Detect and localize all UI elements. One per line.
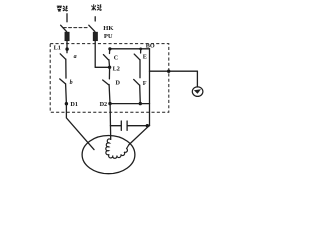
wire: switch D to node D2 <box>108 85 111 104</box>
junction dot at enclosure border (lamp feed) <box>167 70 170 73</box>
wire: live line down to node L2 level <box>94 41 96 68</box>
wire: capacitor right lead <box>128 125 150 127</box>
wire: between switch a and switch b <box>65 59 67 78</box>
wire: node D2 down to motor centre lead <box>109 104 112 140</box>
junction dot at C corner <box>108 47 111 50</box>
label 火线 (live wire text, drawn strokes) <box>91 4 101 10</box>
junction dot F-bottom <box>139 102 142 105</box>
label 零线 (neutral wire text, drawn strokes) <box>57 6 68 11</box>
wire: switch F down to bottom bus <box>139 85 142 103</box>
svg-text:D2: D2 <box>100 101 108 108</box>
wire: lamp feed horizontal <box>150 70 198 72</box>
switch a blade <box>60 54 65 59</box>
wire: horizontal into node L2 <box>95 66 109 68</box>
svg-text:BO: BO <box>146 42 155 49</box>
timer enclosure (dashed box) <box>50 44 169 113</box>
wire: switch b to node D1 <box>65 84 68 104</box>
svg-text:b: b <box>70 80 73 86</box>
motor main winding (vertical coil) <box>106 139 111 155</box>
svg-text:D: D <box>116 80 121 87</box>
wire: node L2 to switch D contact <box>108 67 110 79</box>
svg-text:D1: D1 <box>70 101 78 108</box>
wire: neutral from fuse to node L1 and into switch a <box>66 41 68 53</box>
wire: capacitor left lead <box>110 125 121 127</box>
fuse PU1 (neutral) <box>65 32 69 40</box>
switch D blade <box>103 80 109 85</box>
svg-text:L2: L2 <box>113 65 120 72</box>
switch C blade <box>103 55 108 60</box>
wire: diagonal from capacitor junction into motor <box>129 126 149 144</box>
node L2 <box>108 66 111 69</box>
node D1 <box>65 102 68 105</box>
capacitor C plates <box>121 121 127 130</box>
wire: live feed top segment <box>94 17 96 21</box>
switch E blade <box>134 54 140 60</box>
switch F blade <box>134 79 140 85</box>
wire: bottom bus D2 to right bus <box>110 103 150 105</box>
node L1 <box>65 47 68 50</box>
indicator lamp <box>192 87 203 97</box>
node D2 <box>108 102 111 105</box>
switch C upper contact wire <box>109 49 111 54</box>
mechanical link of switch HK (dashed) <box>63 27 88 29</box>
switch E upper contact wire <box>140 49 142 53</box>
fuse PU2 (live) <box>93 32 97 40</box>
svg-text:HK: HK <box>103 25 114 32</box>
switch b blade <box>60 79 66 84</box>
wire: timer top bus (node C corner to right bus) <box>110 48 150 50</box>
svg-text:E: E <box>143 54 147 61</box>
wire: node D1 down and diagonal into motor <box>66 104 94 150</box>
svg-text:L1: L1 <box>54 45 61 52</box>
wire: switch C to node L2 <box>108 60 111 68</box>
svg-text:PU: PU <box>104 33 113 40</box>
switch E tap junction on top bus <box>139 48 142 51</box>
wire: right bus vertical <box>149 49 151 126</box>
svg-text:a: a <box>74 54 77 60</box>
wire: neutral feed top segment <box>66 14 68 22</box>
wire: lamp feed vertical <box>196 71 198 87</box>
switch HK pole 1 blade (neutral) <box>61 25 67 32</box>
motor M housing (ellipse) <box>82 136 135 174</box>
motor start winding (lower-right coil) <box>109 145 129 159</box>
wire: switch E to switch F <box>139 60 141 78</box>
svg-text:F: F <box>143 80 147 87</box>
svg-text:C: C <box>114 54 118 61</box>
switch HK pole 2 blade (live) <box>89 25 95 31</box>
junction dot capacitor-right <box>146 124 149 127</box>
